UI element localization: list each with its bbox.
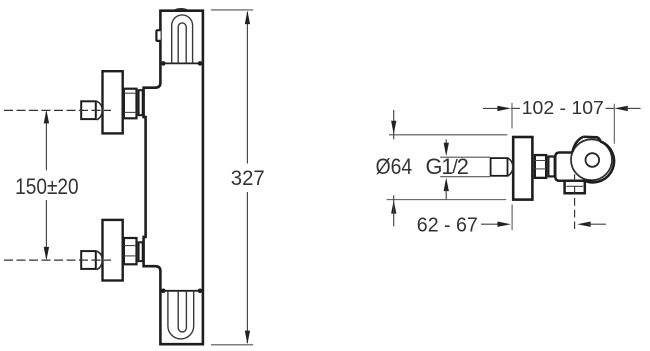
outlet inner seat line [566, 185, 583, 187]
upper wall flange [103, 71, 123, 133]
foot outer U groove [168, 291, 194, 339]
dim 150±20 arrow down [44, 247, 49, 261]
dim 102-107 right arrowhead [614, 106, 628, 111]
lower union nut [124, 238, 137, 264]
svg-text:150±20: 150±20 [15, 174, 79, 199]
dim 150±20 line lower segment [45, 200, 47, 258]
head thick outer arc [585, 141, 614, 182]
upper union nut [124, 89, 137, 119]
dim 327 bottom extension line [211, 344, 253, 346]
dim 327 arrow down [245, 331, 250, 345]
mixer body outline [144, 11, 203, 345]
neck diagonal [572, 137, 583, 153]
separation dot right [198, 61, 203, 66]
dim O64 bottom extension [387, 199, 507, 201]
head hub inner circle [586, 153, 600, 167]
foot dot left [161, 289, 166, 294]
upper cone seat [97, 101, 103, 120]
upper nut facet lines [124, 92, 136, 94]
dim O64 upper shaft [393, 110, 395, 139]
dim 62-67 line left of arrow [481, 223, 500, 225]
left side tab (stop button) [156, 30, 160, 41]
foot dot right [198, 289, 203, 294]
lower wall flange [103, 220, 123, 281]
outlet dashed centerline [574, 174, 576, 229]
lower centerline (dashed) [4, 259, 111, 261]
handle separation line [163, 62, 201, 64]
body block (cartridge housing) [555, 153, 592, 181]
dim G1/2 down arrowhead [444, 143, 449, 157]
upper collar [139, 90, 143, 115]
dim 102-107 left arrow tail [483, 107, 500, 109]
upper centerline (dashed) [4, 109, 111, 111]
side cone seat [508, 158, 513, 176]
lower cone seat [97, 251, 103, 270]
head knob circle (thin) [571, 139, 612, 180]
side flange [513, 137, 532, 200]
foot separation line [163, 290, 201, 292]
handle inner slot [178, 23, 186, 64]
dim G1/2 lower shaft [445, 190, 447, 199]
dim 150±20 line upper segment [45, 112, 47, 170]
dim 102-107 right extension [613, 104, 615, 144]
side union nut [535, 155, 546, 178]
side washer [548, 157, 554, 177]
svg-text:327: 327 [231, 166, 265, 190]
side supply square [491, 158, 508, 176]
upper supply square [81, 101, 96, 119]
dim O64 down arrowhead [391, 121, 396, 135]
foot inner slot [178, 291, 186, 332]
side nut facet lines [535, 160, 546, 162]
dim O64 top extension [389, 134, 507, 136]
dim 327 arrow up [245, 11, 250, 25]
dim 327 top extension line [211, 9, 253, 11]
dim 102-107 left arrowhead [497, 106, 511, 111]
handle top seam bump [175, 9, 187, 10]
dim 62-67 left arrowhead (to axis) [577, 222, 591, 227]
separation dot left [161, 61, 166, 66]
svg-text:G1/2: G1/2 [425, 154, 468, 179]
dim G1/2 bottom line [440, 176, 490, 178]
lower supply square [81, 251, 96, 269]
dim 102-107 right stub [606, 107, 615, 109]
svg-text:102 - 107: 102 - 107 [522, 97, 604, 118]
dim 327 line lower segment [246, 192, 248, 343]
head cap [583, 137, 600, 142]
body bottom edge redraw [557, 179, 593, 181]
handle outer U groove [172, 15, 193, 63]
svg-text:62 - 67: 62 - 67 [417, 214, 478, 236]
dim 102-107 left stub [511, 107, 520, 109]
dim 327 line upper segment [246, 12, 248, 164]
dim 62-67 wall extension [511, 205, 513, 231]
dim O64 lower shaft [393, 195, 395, 226]
dim 62-67 right arrowhead (to wall) [497, 222, 511, 227]
dim 102-107 right arrow tail [625, 107, 641, 109]
dim O64 up arrowhead [391, 200, 396, 214]
dim G1/2 top line [440, 156, 490, 158]
dim 150±20 arrow up [44, 110, 49, 124]
dim G1/2 up arrowhead [444, 178, 449, 192]
lower collar [139, 242, 143, 261]
lower nut facet lines [124, 245, 136, 247]
svg-text:Ø64: Ø64 [376, 154, 413, 179]
outlet block [565, 182, 585, 194]
dim 62-67 arrow tail [588, 223, 606, 225]
dim G1/2 upper shaft [445, 139, 447, 146]
dim 102-107 left extension [511, 103, 513, 129]
